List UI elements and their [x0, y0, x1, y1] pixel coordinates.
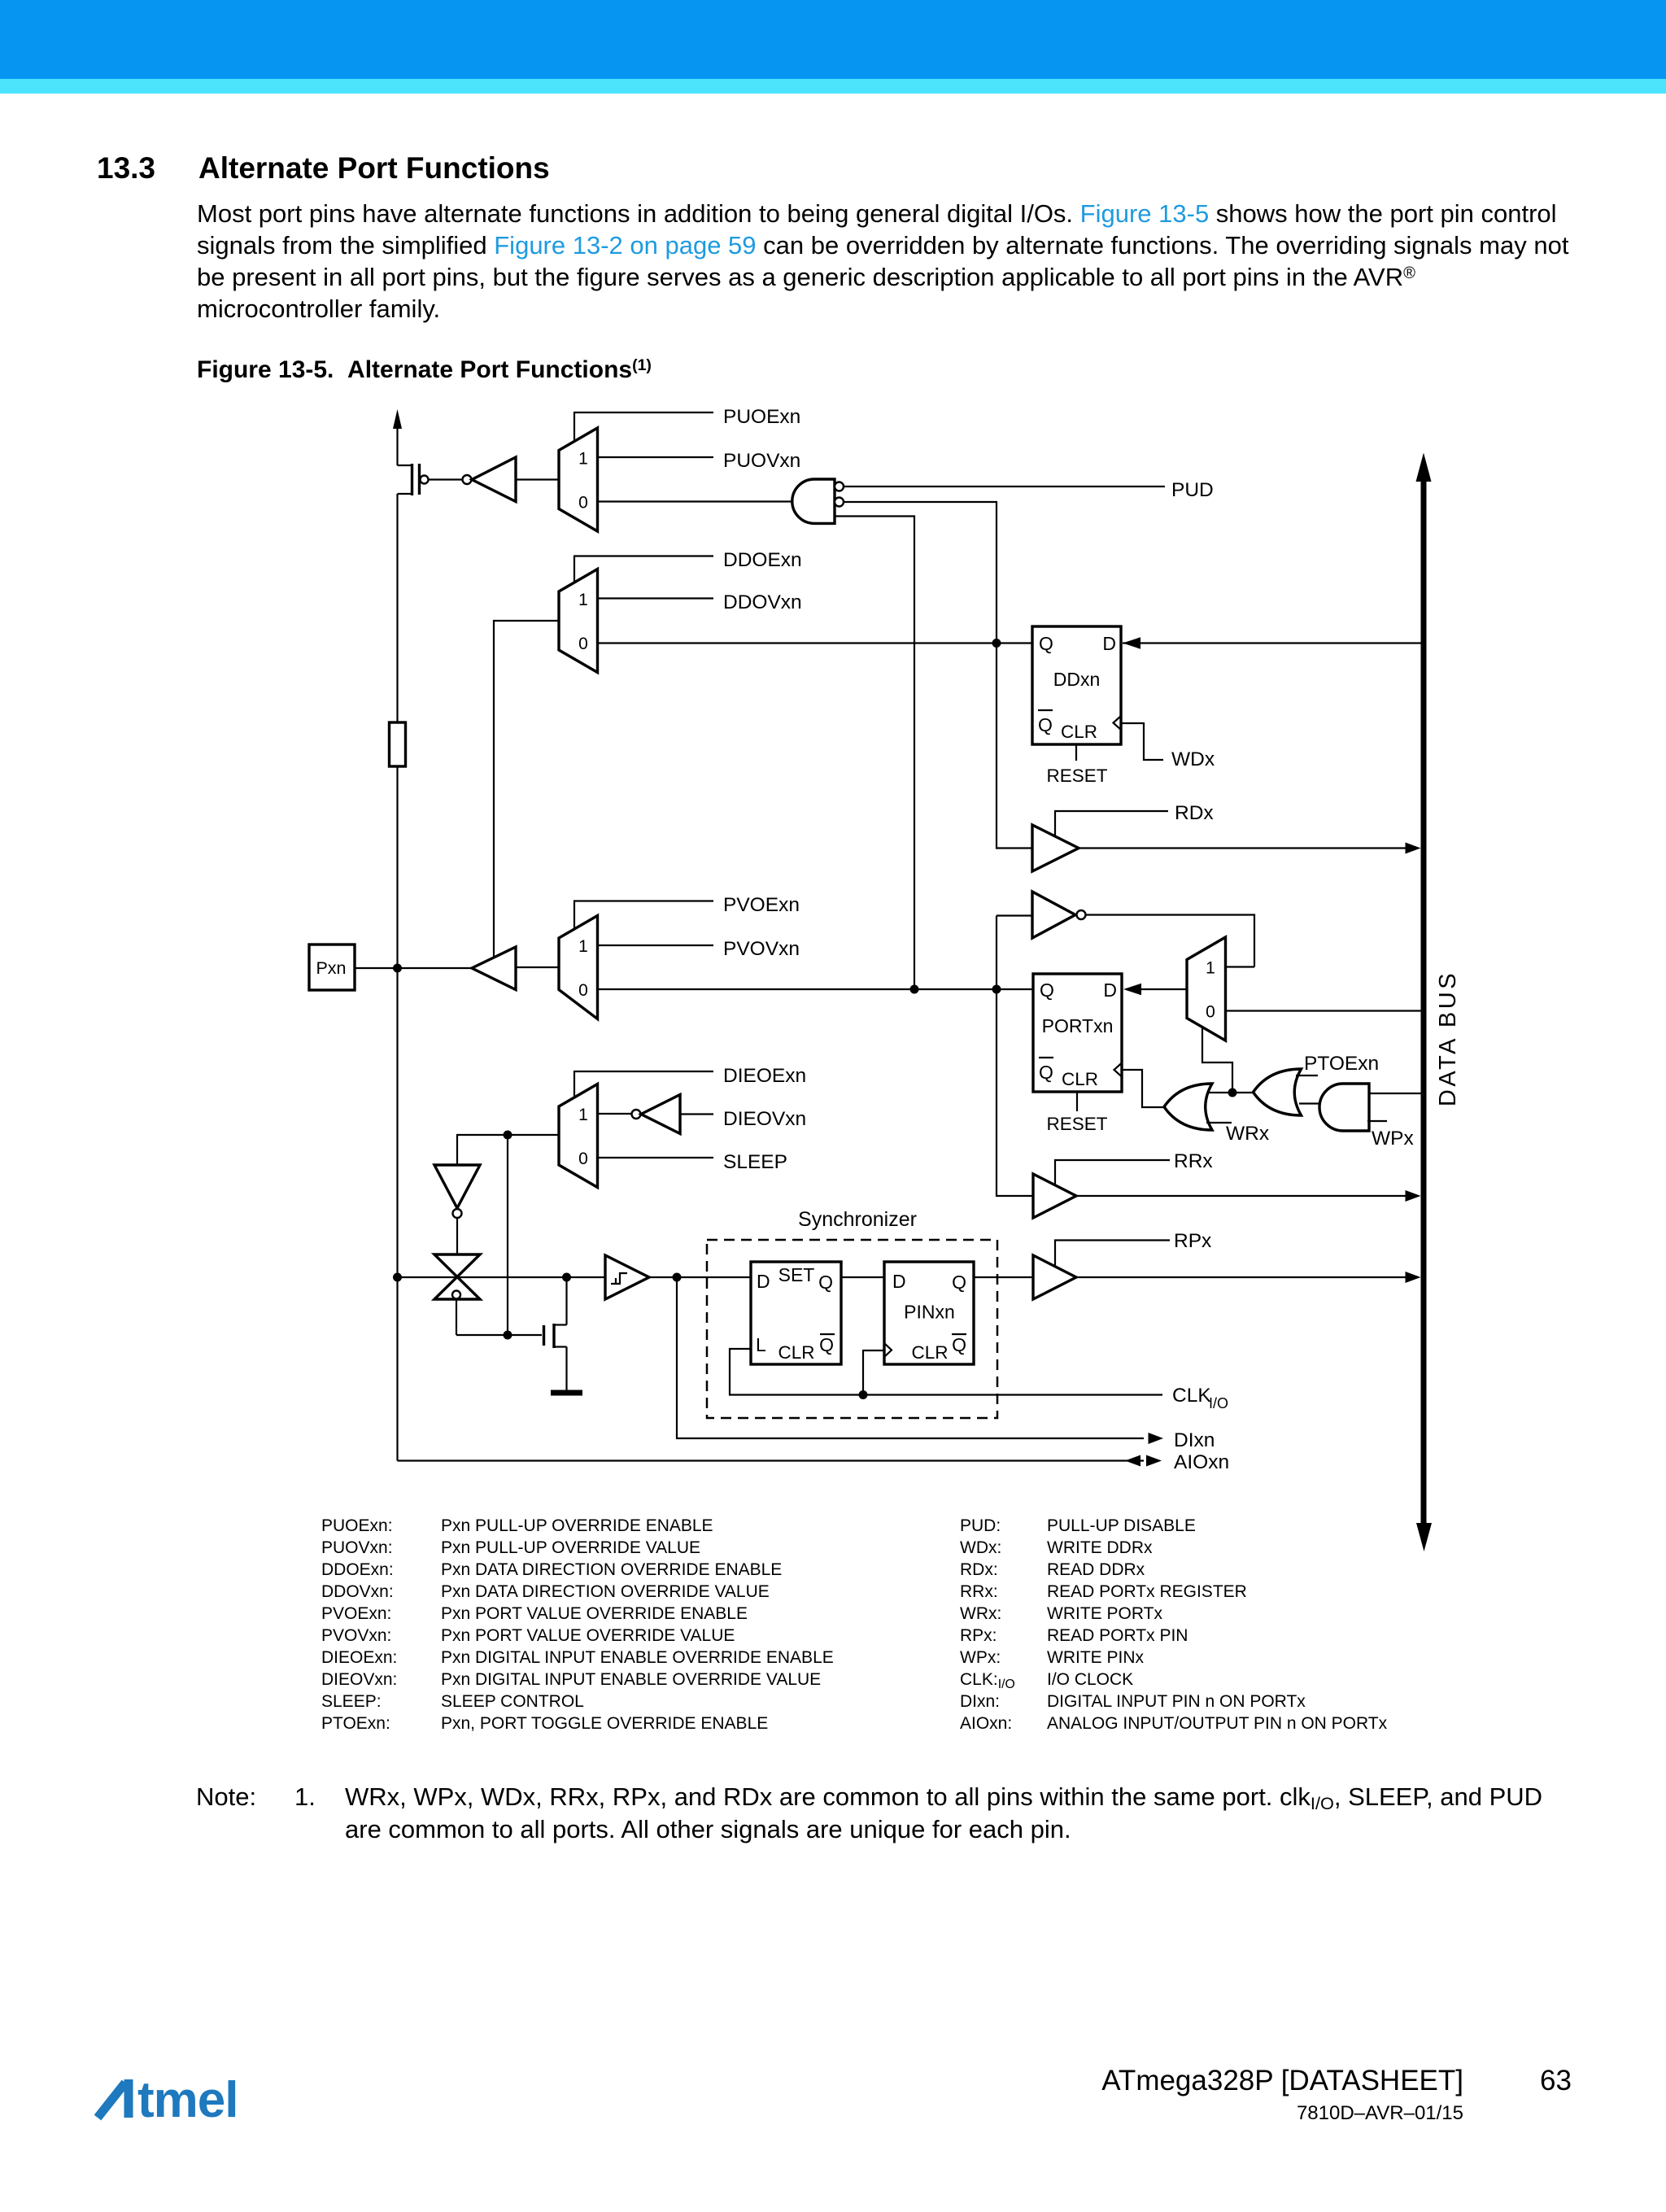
wire PVOVxn	[598, 938, 800, 960]
legend left column labels	[321, 1515, 397, 1734]
svg-text:WDx: WDx	[1171, 748, 1215, 770]
node pin input row junction	[393, 1273, 402, 1282]
svg-text:Q: Q	[952, 1334, 966, 1355]
wire WDx	[1121, 723, 1215, 770]
wire clk I/O	[730, 1349, 1228, 1411]
inverter sleep (down)	[434, 1165, 480, 1254]
wire mux PTOE 0-input to bus	[1226, 1010, 1421, 1011]
svg-text:RDx: RDx	[1175, 802, 1214, 824]
mux PVOE	[559, 916, 598, 1019]
node PTOE select junction	[1228, 1089, 1237, 1097]
data bus	[1416, 453, 1462, 1552]
header cyan strip	[0, 79, 1666, 94]
wire rail down to resistor	[396, 494, 398, 722]
legend left column descriptions	[441, 1515, 834, 1734]
node clamp drain junction	[562, 1273, 571, 1282]
svg-text:PUOVxn: PUOVxn	[723, 450, 800, 472]
svg-text:RESET: RESET	[1046, 1114, 1107, 1134]
transistor pull-up PMOS	[398, 464, 429, 495]
svg-text:PUD: PUD	[1171, 479, 1214, 501]
wire PTOExn label stub	[1296, 1053, 1379, 1075]
wire mux DIEOE output to sleep inverter	[457, 1135, 559, 1165]
wire PINxn clock tap	[863, 1350, 884, 1395]
section heading	[97, 151, 155, 185]
svg-text:PVOExn: PVOExn	[723, 894, 800, 916]
wire mux PVOE 0-input to PORTxn Q	[598, 988, 1034, 990]
wire mux0 to NAND	[598, 500, 794, 502]
wire RESET stub DDxn	[1046, 744, 1107, 786]
wire PORTxn D input with arrowhead	[1123, 984, 1187, 995]
gate OR PTOExn (points left)	[1254, 1069, 1302, 1115]
wire DDOVxn	[598, 591, 802, 613]
wire DIxn branch	[677, 1277, 1215, 1451]
transistor clamp NMOS	[544, 1277, 567, 1391]
wire SLEEP	[598, 1151, 788, 1173]
svg-text:0: 0	[578, 494, 588, 513]
wire PUD	[844, 479, 1214, 501]
svg-text:Q: Q	[819, 1334, 834, 1355]
svg-text:Q: Q	[1038, 714, 1053, 735]
wire DIEOExn select	[574, 1065, 806, 1097]
svg-text:1: 1	[578, 937, 588, 956]
footer right	[1101, 2066, 1463, 2095]
wire DDxn Q to RDx buffer	[997, 644, 1032, 849]
flip-flop PORTxn	[1033, 974, 1122, 1092]
svg-text:DIEOExn: DIEOExn	[723, 1065, 806, 1087]
svg-text:Q: Q	[1040, 979, 1054, 1001]
svg-text:Q: Q	[952, 1272, 966, 1293]
svg-text:D: D	[1102, 633, 1116, 654]
svg-text:CLK: CLK	[1172, 1385, 1211, 1407]
wire NAND bubble2 to DDxn Q line	[844, 502, 997, 644]
svg-text:Q: Q	[1039, 1062, 1053, 1083]
inverter port toggle	[997, 892, 1254, 989]
footer: Atmel logo	[94, 2057, 257, 2126]
svg-text:Q: Q	[818, 1272, 833, 1293]
svg-text:WRx: WRx	[1226, 1123, 1269, 1145]
svg-text:PINxn: PINxn	[904, 1302, 955, 1323]
svg-text:DDOVxn: DDOVxn	[723, 591, 802, 613]
wire WRx label stub	[1206, 1123, 1269, 1145]
flip-flop PINxn	[884, 1262, 974, 1364]
wire PORTxn clock to WRx gate	[1122, 1070, 1166, 1107]
svg-text:WPx: WPx	[1372, 1128, 1414, 1150]
svg-text:0: 0	[578, 981, 588, 1000]
wire WRx gate inputs / OR2 output	[1206, 1092, 1254, 1093]
svg-text:PUOExn: PUOExn	[723, 406, 800, 428]
wire RDx output to bus with arrow	[1079, 843, 1421, 854]
svg-text:DATA BUS: DATA BUS	[1435, 971, 1461, 1106]
svg-text:1: 1	[578, 591, 588, 609]
buffer output driver	[355, 947, 559, 990]
legend right column labels	[960, 1515, 1015, 1734]
header blue bar	[0, 0, 1666, 79]
gate OR WRx (points left)	[1164, 1084, 1212, 1130]
svg-text:D: D	[1103, 979, 1117, 1001]
svg-text:AIOxn: AIOxn	[1174, 1451, 1229, 1473]
wire AND WPx input from bus	[1369, 1093, 1421, 1094]
svg-text:CLR: CLR	[778, 1342, 814, 1363]
wire PINxn Q to RPx buffer	[974, 1276, 1033, 1278]
node clamp gate junction	[504, 1331, 512, 1340]
wire mux PTOE select to gates	[1202, 1027, 1232, 1093]
svg-text:CLR: CLR	[1062, 1069, 1098, 1089]
node PUD/PORTxn junction	[910, 985, 919, 994]
wire RESET stub PORTxn	[1046, 1092, 1107, 1134]
switch analog bowtie	[434, 1254, 542, 1335]
mux PUOE	[559, 428, 598, 531]
svg-text:D: D	[892, 1271, 906, 1292]
wire PUOExn select	[574, 406, 800, 442]
svg-text:I/O: I/O	[1209, 1395, 1228, 1411]
wire latch Q to PINxn D	[841, 1276, 884, 1278]
legend right column descriptions	[1047, 1515, 1387, 1734]
wire PVOExn select	[574, 894, 800, 929]
svg-text:DIEOVxn: DIEOVxn	[723, 1108, 806, 1130]
body paragraph	[197, 198, 1568, 325]
wire AND WPx output to OR PTOExn	[1299, 1102, 1322, 1104]
svg-text:0: 0	[578, 1150, 588, 1168]
flip-flop DDxn	[1032, 626, 1121, 744]
wire PUOVxn	[598, 450, 801, 472]
svg-text:DDOExn: DDOExn	[723, 549, 802, 571]
inverter pull-up	[463, 457, 560, 502]
svg-text:PVOVxn: PVOVxn	[723, 938, 800, 960]
svg-text:D: D	[757, 1271, 770, 1292]
svg-text:PORTxn: PORTxn	[1042, 1015, 1114, 1036]
buffer RPx	[1033, 1230, 1211, 1299]
buffer RRx	[1033, 1150, 1213, 1218]
svg-text:Q: Q	[1039, 633, 1053, 654]
wire RRx output to bus with arrow	[1076, 1190, 1421, 1202]
node DIEOE output junction	[504, 1131, 512, 1140]
svg-text:SET: SET	[778, 1264, 815, 1285]
wire WPx label stub	[1367, 1121, 1414, 1150]
node PORTxn Q junction	[992, 985, 1001, 994]
svg-text:DIxn: DIxn	[1174, 1429, 1215, 1451]
svg-text:Synchronizer: Synchronizer	[798, 1208, 917, 1231]
figure caption	[197, 358, 652, 382]
schmitt trigger	[605, 1255, 649, 1299]
svg-text:CLR: CLR	[1061, 722, 1097, 742]
svg-text:1: 1	[1206, 959, 1215, 978]
wire mux DDOE 0-input to DDxn Q	[598, 642, 1033, 644]
svg-text:CLR: CLR	[911, 1342, 948, 1363]
wire main row Pxn to schmitt	[398, 1276, 606, 1278]
svg-text:PTOExn: PTOExn	[1304, 1053, 1379, 1075]
wire DDOExn select	[574, 549, 802, 582]
svg-text:tmel: tmel	[137, 2072, 238, 2122]
svg-text:RRx: RRx	[1174, 1150, 1213, 1172]
svg-text:L: L	[756, 1334, 766, 1355]
note	[196, 1781, 256, 1813]
mux DIEOE	[559, 1084, 598, 1188]
wire PORTxn Q to RRx buffer	[997, 989, 1033, 1196]
gate NAND pull-up	[792, 479, 844, 523]
pin Pxn box	[309, 945, 355, 990]
svg-text:RESET: RESET	[1046, 766, 1107, 786]
wire mux PTOE 1-input	[1226, 966, 1255, 967]
gate AND WPx (points left)	[1319, 1084, 1369, 1131]
inverter DIEOV	[598, 1095, 807, 1134]
wire gate to inverter	[429, 478, 463, 480]
svg-text:Pxn: Pxn	[316, 958, 346, 978]
mux DDOE	[559, 569, 598, 673]
wire AIOxn	[398, 1451, 1230, 1473]
node clk latch junction	[859, 1390, 868, 1399]
svg-text:0: 0	[1206, 1003, 1215, 1022]
synchronizer dashed box	[707, 1208, 997, 1418]
latch SET/L	[751, 1262, 841, 1364]
node DDxn Q junction	[992, 639, 1001, 648]
svg-text:DDxn: DDxn	[1053, 669, 1101, 690]
wire D input from bus with arrowhead	[1123, 637, 1421, 648]
buffer RDx	[1032, 802, 1214, 871]
wire RPx output to bus with arrow	[1076, 1272, 1421, 1283]
svg-text:SLEEP: SLEEP	[723, 1151, 787, 1173]
node Pxn junction	[393, 964, 402, 973]
wire NAND corner down	[835, 517, 914, 990]
resistor pull-up	[390, 722, 406, 766]
wire resistor to Pxn node	[396, 766, 398, 1461]
svg-text:1: 1	[578, 450, 588, 469]
wire mux DDOE output down to driver enable	[494, 621, 559, 958]
svg-text:RPx: RPx	[1174, 1230, 1211, 1252]
svg-text:0: 0	[578, 635, 588, 653]
ground	[551, 1390, 582, 1396]
wire DIEOE line branch down	[507, 1135, 508, 1335]
node DIxn branch junction	[673, 1273, 682, 1282]
svg-text:1: 1	[578, 1106, 588, 1124]
mux PTOE	[1187, 937, 1226, 1041]
wire schmitt to synchronizer	[649, 1276, 751, 1278]
wire pull-up rail with arrow	[393, 409, 402, 465]
